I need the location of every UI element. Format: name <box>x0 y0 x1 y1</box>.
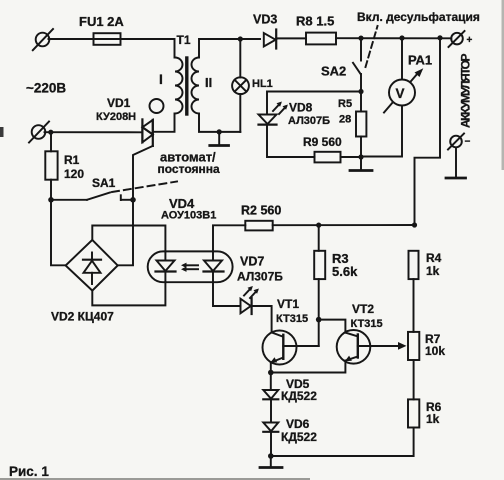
fuse FU1 <box>94 33 121 45</box>
svg-text:SA2: SA2 <box>321 64 346 79</box>
svg-text:VD7: VD7 <box>240 255 264 269</box>
svg-text:HL1: HL1 <box>252 78 273 90</box>
node R9 R5 <box>358 154 363 159</box>
wire VD7 to VT1 collector <box>252 306 272 332</box>
wire SA2 bottom to VD8 <box>267 92 361 115</box>
svg-text:КТ315: КТ315 <box>276 313 308 325</box>
wire secondary bottom <box>199 114 240 132</box>
resistor R4 <box>409 251 419 332</box>
svg-text:VD6: VD6 <box>286 417 310 431</box>
svg-text:I: I <box>159 71 163 87</box>
wire opto to VD7 <box>213 282 241 306</box>
svg-text:FU1 2A: FU1 2A <box>79 14 124 29</box>
wire R2 to R4 rail <box>273 224 415 226</box>
resistor R3 <box>314 225 325 320</box>
wire HL1 top <box>239 39 241 77</box>
svg-text:SA1: SA1 <box>92 176 116 190</box>
diode VD6 <box>263 399 278 456</box>
svg-text:II: II <box>205 75 212 90</box>
label автомат/постоянна <box>158 150 220 177</box>
scan artifact left edge <box>0 127 4 137</box>
svg-text:постоянна: постоянна <box>158 162 220 176</box>
wire bridge top to opto <box>92 226 165 252</box>
node VT1 base R3 <box>316 317 322 323</box>
node SA2 bottom <box>358 89 363 94</box>
svg-text:VD2 КЦ407: VD2 КЦ407 <box>51 310 114 324</box>
LED VD7 <box>241 286 259 314</box>
transistor VT2 <box>271 330 407 373</box>
svg-text:T1: T1 <box>177 33 191 47</box>
wire node B to bridge right <box>118 200 133 265</box>
terminal AC bottom-left <box>29 122 49 143</box>
node secondary ground <box>217 129 222 134</box>
svg-text:V: V <box>396 86 405 101</box>
svg-text:−: − <box>465 137 471 148</box>
wire R8 to plus terminal <box>336 37 451 39</box>
svg-text:КД522: КД522 <box>281 389 317 403</box>
svg-text:КУ208Н: КУ208Н <box>96 111 136 123</box>
node VD6 R6 <box>268 453 274 459</box>
svg-text:R9 560: R9 560 <box>303 135 342 149</box>
node R4 top <box>412 222 417 227</box>
node VT1 emitter <box>268 370 274 376</box>
transformer core <box>185 58 188 114</box>
node R3 top <box>316 223 321 228</box>
switch SA2 <box>353 26 378 92</box>
lamp HL1 <box>232 77 249 94</box>
svg-text:VD1: VD1 <box>107 96 131 110</box>
wire VD3 to R8 <box>276 37 306 39</box>
optocoupler VD4 <box>148 251 233 282</box>
bridge rectifier VD2 <box>66 240 118 291</box>
resistor R1 <box>45 132 57 200</box>
wire top AC to primary <box>49 39 175 58</box>
svg-text:10k: 10k <box>425 344 445 358</box>
svg-text:Рис. 1: Рис. 1 <box>9 464 49 479</box>
scan artifact bottom edge <box>0 478 310 480</box>
svg-text:R2 560: R2 560 <box>241 204 281 218</box>
wire minus to ground <box>455 148 457 177</box>
transformer T1 primary winding I <box>175 58 183 114</box>
terminal AC top-left <box>33 29 53 50</box>
svg-text:R5: R5 <box>338 98 352 110</box>
svg-text:5.6k: 5.6k <box>332 264 358 279</box>
terminal battery plus <box>449 31 473 47</box>
node A <box>48 197 54 203</box>
ground bottom <box>260 456 282 468</box>
ground secondary <box>210 132 229 146</box>
node SA2 top <box>358 36 363 41</box>
diode VD3 <box>264 30 276 49</box>
resistor R9 <box>315 152 341 163</box>
wire HL1 bottom <box>239 94 241 132</box>
resistor R6 <box>271 399 420 456</box>
wire plus rail down to R4 <box>415 38 441 225</box>
ground desulfation node <box>350 157 372 171</box>
wire triac to primary bottom <box>153 114 175 132</box>
resistor R2 <box>245 221 272 231</box>
terminal battery minus <box>448 134 471 150</box>
triac VD1 <box>133 119 153 199</box>
svg-text:VT2: VT2 <box>352 302 374 316</box>
svg-text:VT1: VT1 <box>277 297 299 311</box>
transformer T1 secondary winding II <box>192 58 199 114</box>
svg-text:~220В: ~220В <box>26 81 66 96</box>
wire node to VT2 collector <box>319 320 346 333</box>
svg-text:VD3: VD3 <box>253 13 277 27</box>
svg-text:1k: 1k <box>426 412 440 426</box>
diode VD5 <box>263 373 278 400</box>
wire opto to R2 <box>213 225 245 251</box>
svg-text:АОУ103В1: АОУ103В1 <box>161 210 216 222</box>
wire bridge bottom to opto <box>92 282 165 305</box>
svg-text:КТ315: КТ315 <box>351 318 383 330</box>
svg-text:VD8: VD8 <box>289 101 313 115</box>
wire VT1 base to node <box>318 320 320 346</box>
node PA1 top <box>399 35 404 40</box>
svg-text:РА1: РА1 <box>408 53 432 68</box>
voltmeter PA1 <box>364 38 424 157</box>
scan artifact right edge <box>502 0 504 170</box>
switch SA1 <box>51 182 177 201</box>
svg-text:R4: R4 <box>426 251 442 265</box>
wire AC bottom to triac <box>45 131 142 133</box>
wire node A to bridge left <box>51 200 66 265</box>
node HL1 top <box>238 36 243 41</box>
ground minus terminal <box>446 177 466 180</box>
svg-text:28: 28 <box>339 114 351 126</box>
svg-text:АЛ307Б: АЛ307Б <box>288 115 330 127</box>
potentiometer R7 <box>408 332 419 400</box>
node R1 top <box>48 130 53 135</box>
svg-text:КД522: КД522 <box>281 430 317 444</box>
circle mark near primary <box>150 99 164 113</box>
wire VD8 to R9 <box>267 125 315 157</box>
svg-text:R1: R1 <box>64 153 80 167</box>
resistor R8 <box>306 33 336 45</box>
svg-text:АЛ307Б: АЛ307Б <box>237 270 283 284</box>
svg-text:Вкл. десульфатация: Вкл. десульфатация <box>357 10 480 24</box>
svg-text:R8 1.5: R8 1.5 <box>296 14 334 29</box>
node B <box>130 197 136 203</box>
svg-text:120: 120 <box>64 167 84 181</box>
svg-text:+: + <box>467 35 473 46</box>
transistor VT1 <box>263 331 319 373</box>
node plus rail <box>437 35 442 40</box>
LED VD8 <box>259 102 288 125</box>
resistor R5 <box>356 92 366 158</box>
svg-text:1k: 1k <box>426 264 440 278</box>
wire R9 to node <box>341 156 362 158</box>
svg-text:АККУМУЛЯТОР: АККУМУЛЯТОР <box>459 54 473 128</box>
wire secondary top to VD3 <box>199 39 260 58</box>
